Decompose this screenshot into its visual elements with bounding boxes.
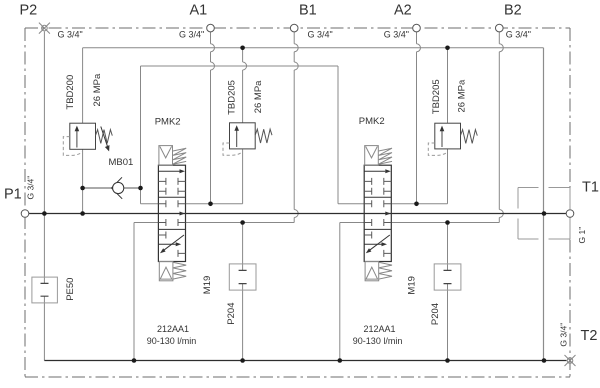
label G3/4 A2 [384, 29, 409, 39]
wire T1 branch vertical (x=543.5) [543, 48, 545, 361]
solenoid U2 top [365, 146, 379, 166]
label T2 [581, 328, 598, 344]
port T1 [566, 210, 574, 218]
wire valve2 B down line [339, 223, 341, 361]
node T1 cavity box [518, 188, 570, 240]
svg-text:G 3/4": G 3/4" [384, 29, 409, 39]
label MB01 [109, 157, 134, 168]
junction T1 branch / T bus [542, 358, 547, 363]
adjust arrow TBD200 [101, 127, 110, 152]
wire A2 vertical [417, 32, 421, 204]
valve U1 position-0 internals [158, 200, 185, 226]
wire MB01 line (y=188) [83, 187, 141, 189]
wire valve2 B-port line (y=222.5) [340, 222, 500, 224]
svg-text:G 3/4": G 3/4" [179, 29, 204, 39]
label TBD205-1 (vertical) [227, 80, 238, 115]
label G3/4 B2 [506, 29, 531, 39]
wire P204-2 vertical [447, 223, 449, 361]
wire valve1 B down line [133, 223, 135, 361]
svg-text:G 1": G 1" [577, 227, 587, 244]
wire B1 vertical [294, 32, 298, 223]
label TBD200 (vertical) [65, 75, 76, 110]
junction MB01 / bypass branch [138, 186, 143, 191]
junction P204-2 / T bus [445, 358, 450, 363]
label TBD205-2 (vertical) [431, 79, 442, 114]
svg-text:90-130 l/min: 90-130 l/min [147, 336, 197, 346]
spring TBD205-2 [461, 130, 478, 144]
label flow U2 [353, 336, 403, 346]
svg-text:P204: P204 [430, 303, 441, 325]
svg-text:P1: P1 [4, 187, 22, 203]
wire main pressure bus P1-T1 (y=213.5) [29, 213, 566, 215]
relief valve TBD200 [70, 123, 96, 149]
junction TBD200 / P bus [80, 211, 85, 216]
svg-text:B2: B2 [504, 2, 522, 18]
label G3/4 A1 [179, 29, 204, 39]
label G1 T1 (vertical) [577, 227, 587, 244]
junction TBD200 / MB01 line [80, 186, 85, 191]
port T2 (plugged) [565, 355, 576, 366]
valve U2 position-0 internals [364, 200, 391, 226]
label B1 [299, 2, 317, 18]
valve U2 body (PMK2) [364, 165, 391, 261]
valve U2 position-b internals [364, 232, 391, 257]
spring TBD205-1 [255, 129, 272, 143]
wire P2 vertical line [43, 32, 45, 361]
svg-text:PMK2: PMK2 [155, 117, 181, 128]
label 26MPa TBD205-2 (vertical) [457, 79, 468, 112]
svg-text:MB01: MB01 [109, 157, 134, 168]
check valve MB01 [112, 177, 124, 199]
junction valve1 B down / T bus [132, 358, 137, 363]
svg-text:B1: B1 [299, 2, 317, 18]
wire bottom tank bus (y=360.5) [44, 360, 566, 362]
junction A1 / valve1 A line [208, 202, 213, 207]
label M19-1 (vertical) [202, 276, 213, 294]
junction TBD205-1 / tank line [240, 46, 245, 51]
svg-text:A2: A2 [394, 2, 412, 18]
valve U1 position-a internals [158, 169, 185, 195]
svg-text:26 MPa: 26 MPa [253, 80, 264, 113]
port A2 [413, 24, 421, 32]
junction P204-1 / T bus [240, 358, 245, 363]
svg-text:T1: T1 [582, 180, 599, 196]
label P1 [4, 187, 22, 203]
label A2 [394, 2, 412, 18]
label G3/4 B1 [308, 29, 333, 39]
port P2 (plugged) [39, 23, 50, 34]
solenoid U1 bottom [159, 262, 173, 281]
svg-text:M19: M19 [407, 276, 418, 294]
label G3/4 P2 [58, 30, 83, 40]
wire B2 vertical [499, 32, 503, 223]
label 26MPa TBD205-1 (vertical) [253, 80, 264, 113]
svg-text:TBD205: TBD205 [227, 80, 238, 115]
junction P204-1 / valve1 B line [240, 220, 245, 225]
svg-text:T2: T2 [581, 328, 598, 344]
label PMK2 U1 [155, 117, 181, 128]
svg-text:P2: P2 [20, 2, 38, 18]
label P204-1 (vertical) [226, 303, 237, 325]
wire TBD200 top branch [82, 48, 84, 123]
svg-text:212AA1: 212AA1 [364, 324, 396, 334]
svg-text:G 3/4": G 3/4" [506, 29, 531, 39]
pilot line TBD200 (dashed) [63, 137, 82, 156]
label PE50 (vertical) [65, 278, 76, 301]
svg-text:G 3/4": G 3/4" [308, 29, 333, 39]
port B2 [496, 24, 504, 32]
wire valve2 left port branch [338, 66, 364, 204]
relief valve TBD205-2 [435, 123, 461, 149]
solenoid U1 top [159, 146, 173, 166]
valve U1 body (PMK2) [158, 165, 185, 261]
junction P2 line / P bus [42, 211, 47, 216]
svg-text:212AA1: 212AA1 [157, 324, 189, 334]
label M19-2 (vertical) [407, 276, 418, 294]
label P2 [20, 2, 38, 18]
spring TBD200 [96, 130, 113, 144]
svg-text:PMK2: PMK2 [359, 116, 385, 127]
junction A2 / valve2 A line [414, 202, 419, 207]
wire bypass line (y=66) [141, 65, 339, 67]
plug PE50 [32, 277, 58, 303]
wire valve1 B-port line (y=222.5) [134, 222, 294, 224]
wire MB01 right branch vertical [141, 66, 159, 204]
svg-text:G 3/4": G 3/4" [559, 323, 569, 347]
spring U2 bottom [379, 262, 392, 279]
plug M19-2 [434, 264, 461, 290]
svg-text:TBD205: TBD205 [431, 79, 442, 114]
plug M19-1 [229, 264, 256, 290]
label G3/4 T2 (vertical) [559, 323, 569, 347]
spring U2 top [379, 148, 392, 164]
wire TBD205-1 vertical [243, 48, 247, 204]
svg-text:G 3/4": G 3/4" [58, 30, 83, 40]
wire A1 vertical [211, 32, 215, 204]
label P204-2 (vertical) [430, 303, 441, 325]
solenoid U2 bottom [365, 262, 379, 281]
svg-text:26 MPa: 26 MPa [457, 79, 468, 112]
wire valve2 A-port line (y=204) [391, 203, 447, 205]
wire P204-1 vertical [242, 223, 244, 361]
junction T1 branch / P bus [542, 211, 547, 216]
junction TBD205-2 / tank line [445, 46, 450, 51]
svg-text:90-130 l/min: 90-130 l/min [353, 336, 403, 346]
spring U1 bottom [173, 262, 186, 279]
label A1 [190, 2, 208, 18]
svg-text:A1: A1 [190, 2, 208, 18]
label B2 [504, 2, 522, 18]
pilot line TBD205-2 (dashed) [428, 143, 447, 155]
port A1 [207, 24, 215, 32]
port P1 [21, 210, 29, 218]
label 212AA1 U2 [364, 324, 396, 334]
wire TBD205-2 vertical [447, 48, 449, 204]
wire valve1 A-port line (y=204) [186, 203, 243, 205]
junction P204-2 / valve2 B line [445, 220, 450, 225]
label 212AA1 U1 [157, 324, 189, 334]
svg-text:P204: P204 [226, 303, 237, 325]
pilot line TBD205-1 (dashed) [223, 143, 242, 155]
valve U1 position-b internals [158, 232, 185, 257]
svg-text:PE50: PE50 [65, 278, 76, 301]
port B1 [290, 24, 298, 32]
wire TBD200 bottom branch [82, 149, 84, 213]
wire relief tank line (y=48) [83, 47, 544, 49]
svg-text:M19: M19 [202, 276, 213, 294]
junction valve2 B down / T bus [338, 358, 343, 363]
label PMK2 U2 [359, 116, 385, 127]
svg-text:TBD200: TBD200 [65, 75, 76, 110]
relief valve TBD205-1 [230, 123, 256, 149]
svg-text:G 3/4": G 3/4" [26, 176, 36, 200]
svg-text:26 MPa: 26 MPa [92, 73, 103, 106]
label flow U1 [147, 336, 197, 346]
spring U1 top [173, 148, 186, 164]
label T1 [582, 180, 599, 196]
label 26MPa TBD200 (vertical) [92, 73, 103, 106]
valve U2 position-a internals [364, 169, 391, 195]
label G3/4 P1 (vertical) [26, 176, 36, 200]
